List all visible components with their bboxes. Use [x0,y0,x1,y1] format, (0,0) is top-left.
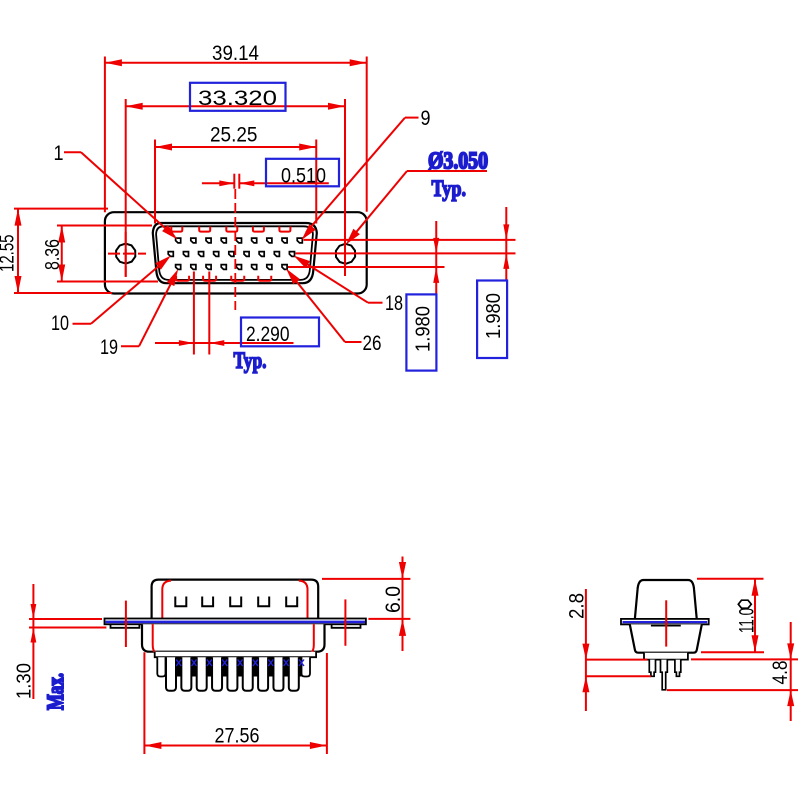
dim 1.980 rows 1-2 [505,207,507,281]
svg-text:Max.: Max. [43,673,68,710]
short back pin left end [157,657,165,676]
left clinch tab [111,624,140,628]
right pin [675,660,681,677]
back row pins (dark gaps) [176,657,181,676]
svg-text:Typ.: Typ. [432,176,467,201]
pin row 3 (pins 19-26) [176,265,181,270]
side view insulator body [142,624,325,651]
svg-text:1.980: 1.980 [413,306,435,352]
svg-text:4.8: 4.8 [769,661,792,685]
svg-text:10: 10 [51,312,69,335]
end view flange [621,619,709,625]
svg-text:26: 26 [363,332,382,355]
dim 33.320 [125,99,127,277]
left pin [649,660,655,677]
svg-text:0.510: 0.510 [281,165,326,188]
left hole centerlines [108,253,146,255]
pin base step [155,652,316,658]
svg-text:6.0: 6.0 [382,586,405,613]
pin row 1 (pins 1-9) [176,238,181,243]
svg-text:2.8: 2.8 [566,593,589,619]
red polarization marks bottom edge [176,276,189,281]
dim 4.8 [691,658,798,660]
dim 12.55 [14,208,108,210]
end view centerline [665,600,667,646]
svg-text:9: 9 [421,107,431,130]
dim 11.0 [697,578,764,580]
blue gasket line [623,621,708,623]
dim 39.14 [104,57,106,213]
dim 1.980 rows 2-3 [435,221,437,294]
left mounting hole [116,244,135,264]
svg-text:25.25: 25.25 [210,124,258,147]
right mounting hole [336,244,355,264]
svg-text:27.56: 27.56 [215,725,260,748]
svg-text:11.0: 11.0 [736,608,759,633]
vertical centerline (dashed) [234,189,236,310]
dim 6.0 [322,578,410,580]
dim 8.36 [57,225,152,227]
svg-text:2.290: 2.290 [246,323,290,346]
hexagon symbol [738,600,751,608]
right clinch tab [332,624,361,628]
svg-text:39.14: 39.14 [212,42,259,65]
center long pin [661,660,668,690]
front row pins [166,657,176,691]
side view flange bar [105,619,366,625]
svg-text:18: 18 [385,292,403,315]
pin row 2 (pins 10-18) [168,252,173,257]
end view insulator trapezoid [630,624,702,652]
dim 0.510 [233,174,235,189]
D-shell outer outline [153,223,317,283]
side view contact notches [175,597,186,607]
red polarization marks top edge [171,227,182,232]
dim 2.290 [193,272,195,355]
svg-text:1.980: 1.980 [483,293,505,339]
svg-text:Typ.: Typ. [234,348,267,373]
svg-text:33.320: 33.320 [198,87,277,110]
blue hatch marks at pin tops [176,660,181,667]
svg-text:8.36: 8.36 [42,239,64,270]
svg-text:1: 1 [54,142,64,165]
short back pin right end [302,657,311,676]
dim 27.56 [143,652,145,754]
pin base step [644,653,688,660]
blue gasket line in flange [106,621,366,624]
svg-text:19: 19 [100,336,118,359]
insulator inner red lines [153,624,164,657]
end view dome shell [635,580,697,619]
pin row extension lines right [304,239,516,241]
front view flange plate [105,212,367,293]
dim 2.8 [586,659,648,661]
svg-text:12.55: 12.55 [0,235,19,273]
side view shell inner red lines [162,581,171,619]
side view shell body [152,580,319,619]
inner step line under flange [651,625,681,627]
svg-text:1.30: 1.30 [14,663,36,699]
dim 25.25 [154,140,156,224]
D-shell inner outline [156,226,313,280]
dim 1.30 [29,618,102,620]
side view hole centerlines [125,601,127,647]
